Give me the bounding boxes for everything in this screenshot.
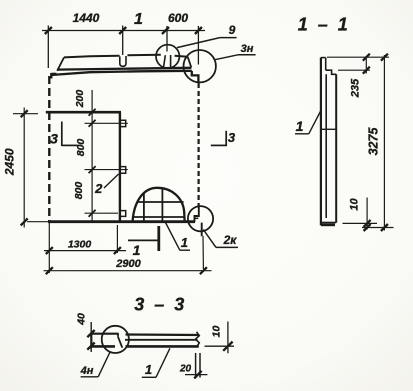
section 1-1 inner line	[325, 74, 327, 218]
coping strip top edge	[64, 55, 188, 58]
svg-text:800: 800	[75, 139, 87, 157]
section mark 3 right	[211, 130, 236, 146]
extension bottom datum	[362, 227, 394, 229]
joint inside circle 4n	[118, 333, 122, 348]
coping strip left slant	[57, 57, 64, 70]
extension tick middle	[85, 169, 128, 171]
label 1 dome	[166, 223, 191, 251]
dimension 10 section 3-3	[211, 322, 233, 354]
bar 3-3 inner line	[125, 339, 198, 341]
extension line left (x=48.3)	[47, 26, 49, 69]
svg-text:9: 9	[229, 23, 236, 37]
extension line notch1 (x=122.7)	[122, 26, 124, 56]
dome arch	[133, 188, 185, 221]
coping notch 1	[120, 56, 126, 66]
section 1-1 upper inner edge	[325, 58, 327, 71]
extension line notch2 (x=167)	[166, 26, 168, 52]
svg-text:1300: 1300	[68, 239, 92, 251]
svg-text:3: 3	[50, 131, 58, 147]
extension top	[327, 56, 389, 58]
dome grid vertical right	[161, 189, 163, 221]
extension line left edge down	[48, 222, 50, 273]
svg-text:1: 1	[145, 362, 152, 377]
coping strip right slant	[188, 57, 192, 68]
dimension 20	[179, 353, 207, 378]
section 1-1 bottom cap	[321, 223, 336, 225]
detail circle 3n	[184, 50, 216, 82]
dome grid horizontal lower	[133, 216, 184, 218]
extension line inner edge down	[116, 225, 118, 253]
extension bottom bar	[343, 222, 378, 224]
svg-text:3275: 3275	[367, 127, 381, 156]
svg-text:3: 3	[228, 130, 236, 145]
section 1-1 step	[326, 70, 337, 74]
dimension 2450 left	[3, 108, 39, 228]
label 1 section 1-1	[295, 111, 321, 135]
panel bottom edge	[48, 220, 195, 223]
extension 10 right	[205, 345, 235, 347]
label 1 section 3-3	[142, 348, 170, 377]
svg-text:2450: 2450	[3, 148, 17, 176]
svg-text:40: 40	[76, 313, 88, 326]
svg-text:10: 10	[211, 326, 223, 338]
detail circle 9	[156, 45, 179, 68]
label 9	[177, 23, 237, 48]
panel step line	[46, 111, 121, 114]
dimension line top	[42, 27, 205, 34]
section 1-1 right edge	[335, 74, 337, 222]
dome grid horizontal upper	[137, 201, 184, 203]
label 2	[94, 174, 118, 196]
section 1-1 bar top cap	[321, 57, 326, 59]
svg-text:200: 200	[74, 90, 86, 109]
svg-text:1 – 1: 1 – 1	[298, 15, 351, 35]
svg-text:4н: 4н	[80, 365, 94, 377]
extension tick lower	[85, 212, 119, 214]
bar 3-3 top edge	[91, 334, 199, 335]
extension line right corner (x=198.4)	[197, 26, 199, 65]
dimension 235	[350, 54, 370, 98]
panel left edge (dashed)	[48, 76, 50, 221]
panel top-right corner step	[192, 71, 199, 82]
svg-text:1: 1	[296, 118, 304, 134]
panel top-left corner	[50, 73, 52, 79]
svg-text:3н: 3н	[241, 43, 254, 55]
section 1-1 joint line	[321, 128, 336, 130]
coping strip bottom edge	[57, 68, 191, 70]
section mark 3 left	[50, 122, 77, 147]
detail circle 4n	[102, 326, 129, 353]
extension line right corner down	[202, 236, 204, 269]
embedded plate tab middle	[120, 167, 126, 174]
label 2k	[203, 230, 238, 248]
label 3n	[214, 43, 255, 60]
label 4n	[80, 352, 111, 377]
svg-text:1: 1	[133, 242, 141, 258]
panel inner vertical edge	[119, 112, 121, 220]
dimension 40 left	[76, 313, 95, 352]
coping notch 2	[164, 55, 171, 67]
extension tick upper	[85, 122, 128, 124]
inner dimension line vertical	[89, 90, 96, 221]
svg-text:3 – 3: 3 – 3	[134, 295, 187, 315]
corner profile inside 2k	[194, 207, 202, 236]
bar 3-3 break right end	[196, 332, 200, 347]
section 1-1 bar left edge	[320, 58, 322, 226]
embedded plate tab lower	[120, 211, 126, 217]
svg-text:2900: 2900	[115, 258, 141, 270]
dome grid vertical left	[143, 193, 145, 221]
section mark 1 bottom	[128, 226, 159, 258]
dimension 1300	[44, 239, 126, 255]
dimension 10 section 1-1	[349, 198, 371, 232]
svg-text:1: 1	[134, 11, 143, 28]
detail circle 2k	[188, 206, 213, 231]
svg-text:2: 2	[94, 181, 103, 196]
panel right edge (dashed)	[198, 83, 200, 207]
panel top edge	[51, 71, 192, 75]
bar 3-3 bottom edge	[91, 345, 199, 348]
svg-text:10: 10	[349, 198, 361, 211]
dimension 2900	[44, 258, 212, 274]
svg-text:20: 20	[179, 364, 192, 375]
svg-text:2к: 2к	[223, 233, 238, 247]
extension step	[338, 69, 370, 71]
svg-text:600: 600	[168, 11, 188, 25]
embedded plate tab upper	[120, 120, 126, 126]
svg-text:235: 235	[350, 78, 362, 98]
svg-text:1: 1	[181, 235, 188, 250]
svg-text:800: 800	[73, 182, 85, 200]
svg-text:1440: 1440	[73, 11, 100, 25]
bottom edge extension left	[27, 221, 48, 223]
dimension 3275	[367, 54, 388, 231]
